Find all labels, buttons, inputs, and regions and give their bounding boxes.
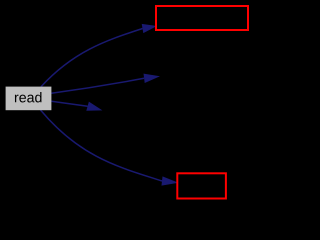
wire: edge read -> node5 (curved spline down) [41, 110, 163, 181]
wire: edge read -> node4 (short arrow) [51, 101, 87, 106]
arrowhead edge read -> node3 [144, 74, 160, 83]
arrowhead edge read -> node5 [161, 176, 178, 185]
arrowhead edge read -> node2 [142, 24, 157, 33]
node2 (truncated node, red border, top) [156, 6, 248, 30]
node5 (truncated node, red border, bottom) [177, 173, 226, 198]
arrowhead edge read -> node4 [86, 102, 102, 111]
wire: edge read -> node3 (middle long arrow) [51, 78, 144, 93]
node read (current function, grey box) [6, 87, 52, 111]
label "read" (glyph outlines) [15, 92, 42, 102]
wire: edge read -> node2 (curved spline up) [41, 29, 143, 87]
